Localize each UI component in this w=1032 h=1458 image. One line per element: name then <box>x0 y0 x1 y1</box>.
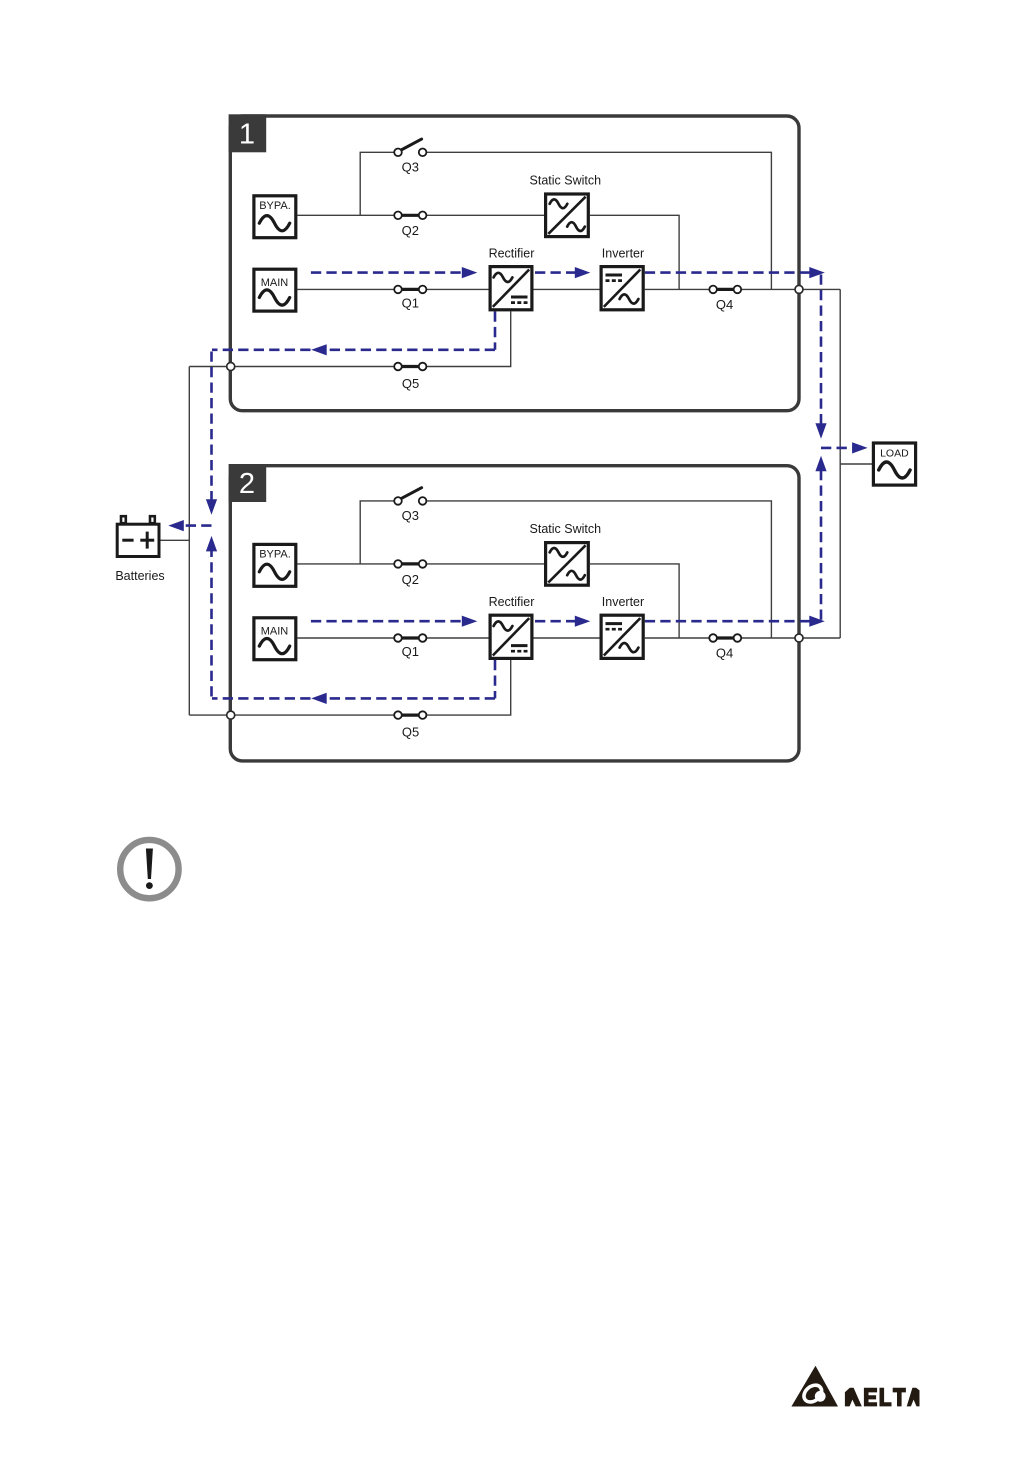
svg-text:Batteries: Batteries <box>115 569 164 583</box>
wire: Q5 battery line and riser to Rectifier bottom <box>189 311 510 366</box>
Delta logo triangle <box>791 1366 838 1407</box>
wire: Q5 battery line and riser to Rectifier bottom <box>189 660 510 715</box>
svg-text:Q3: Q3 <box>402 160 419 175</box>
svg-text:Q5: Q5 <box>402 376 419 391</box>
LOAD box <box>873 443 915 485</box>
unit 2 switch Q2 (closed) <box>394 560 426 568</box>
unit 1 number label <box>229 114 267 152</box>
svg-text:Q3: Q3 <box>402 508 419 523</box>
unit 2 label Static Switch <box>530 522 602 536</box>
unit 2 switch Q4 (closed) <box>709 634 741 642</box>
unit 1 switch Q3 (open) <box>394 139 426 156</box>
flow: unit 2 return up to battery junction (dashed arrow) <box>206 536 217 697</box>
wire: Static Switch output down to output line <box>590 215 679 289</box>
unit 2 flow: Rectifier to Inverter (dashed arrow) <box>535 616 590 627</box>
wire: battery tap <box>161 539 190 541</box>
unit 2 BYPA source box <box>254 544 296 586</box>
Delta logo wordmark DELTA <box>845 1388 920 1407</box>
svg-text:Q4: Q4 <box>716 297 733 312</box>
unit 1 switch Q5 (closed) <box>394 363 426 371</box>
unit 2 label Q4 <box>716 645 733 660</box>
unit 2 label Q3 <box>402 508 419 523</box>
unit 1 label Q2 <box>402 223 419 238</box>
svg-text:BYPA.: BYPA. <box>259 200 291 212</box>
svg-text:Q5: Q5 <box>402 725 419 740</box>
flow: unit 1 return down to battery junction (dashed arrow) <box>206 352 217 515</box>
svg-text:1: 1 <box>239 118 255 150</box>
svg-text:MAIN: MAIN <box>261 277 289 289</box>
unit 2 Static Switch block <box>546 543 589 586</box>
svg-text:Q4: Q4 <box>716 645 733 660</box>
unit 1 Rectifier block <box>490 267 532 310</box>
svg-text:2: 2 <box>239 468 255 500</box>
unit 2 label Q5 <box>402 725 419 740</box>
unit 1 label Static Switch <box>530 173 602 187</box>
unit 1 switch Q4 (closed) <box>709 286 741 294</box>
flow: unit 1 output down to load junction (dashed arrow) <box>815 275 826 439</box>
left battery bus vertical wire <box>188 367 190 716</box>
unit 1 node: output at right border <box>795 285 803 293</box>
unit 1 switch Q2 (closed) <box>394 212 426 220</box>
unit 1 flow: Rectifier to Inverter (dashed arrow) <box>535 267 590 278</box>
unit 2 label Rectifier <box>489 595 535 609</box>
unit 2 node: Q5 line at left border <box>227 711 235 719</box>
unit 1 label Q1 <box>402 295 419 310</box>
unit 1 Inverter block <box>601 267 643 310</box>
unit 2 number label <box>229 464 267 502</box>
unit 1 flow: Inverter to output bus (dashed arrow) <box>645 267 825 278</box>
svg-text:Q1: Q1 <box>402 644 419 659</box>
svg-text:Rectifier: Rectifier <box>489 246 535 260</box>
unit 2 flow: Inverter to output bus (dashed arrow) <box>645 616 825 627</box>
unit 2 label Q1 <box>402 644 419 659</box>
unit 1 label Q3 <box>402 160 419 175</box>
unit 1 switch Q1 (closed) <box>394 286 426 294</box>
unit 2 flow: Rectifier return to battery line (dashed arrow) <box>212 660 495 704</box>
wire: BYPA output to Q2 to Static Switch <box>297 214 545 216</box>
wire: Q3 output down to output line <box>426 152 771 289</box>
wire: MAIN output through Q1 to Rectifier <box>297 637 490 639</box>
svg-text:LOAD: LOAD <box>880 447 909 459</box>
unit 1 label Q5 <box>402 376 419 391</box>
wire: output bus to LOAD <box>840 463 873 465</box>
svg-text:Inverter: Inverter <box>602 246 644 260</box>
unit 2 label Q2 <box>402 572 419 587</box>
wire: riser BYPA line to Q3 line <box>360 501 394 564</box>
Batteries symbol <box>117 516 159 556</box>
unit 1 BYPA source box <box>254 196 296 238</box>
right output bus vertical wire <box>839 289 841 638</box>
flow: junction to Batteries (dashed arrow) <box>168 520 211 531</box>
svg-text:Q2: Q2 <box>402 223 419 238</box>
wire: Rectifier to Inverter <box>534 637 602 639</box>
wire: Inverter through Q4 to output bus <box>645 637 840 639</box>
unit 1 label Q4 <box>716 297 733 312</box>
unit 2 switch Q5 (closed) <box>394 711 426 719</box>
svg-text:Static Switch: Static Switch <box>530 522 602 536</box>
warning icon (exclamation circle) <box>120 840 178 898</box>
unit 1 MAIN source box <box>254 269 296 311</box>
wire: Rectifier to Inverter <box>534 288 602 290</box>
unit 1 Static Switch block <box>546 194 589 237</box>
unit 2 switch Q1 (closed) <box>394 634 426 642</box>
wire: BYPA output to Q2 to Static Switch <box>297 563 545 565</box>
unit 2 flow: MAIN to Rectifier (dashed arrow) <box>311 616 477 627</box>
flow: unit 2 output up to load junction (dashed arrow) <box>815 456 826 620</box>
wire: riser BYPA line to Q3 line <box>360 152 394 215</box>
svg-text:Q2: Q2 <box>402 572 419 587</box>
unit 1 label Inverter <box>602 246 644 260</box>
wire: Static Switch output down to output line <box>590 564 679 638</box>
flow: junction to LOAD (dashed arrow) <box>821 442 868 453</box>
unit 2 Inverter block <box>601 615 643 658</box>
unit 1 node: Q5 line at left border <box>227 363 235 371</box>
wire: Q3 output down to output line <box>426 501 771 638</box>
unit 1 label Rectifier <box>489 246 535 260</box>
unit 2 label Inverter <box>602 595 644 609</box>
unit 2 node: output at right border <box>795 634 803 642</box>
svg-text:Rectifier: Rectifier <box>489 595 535 609</box>
svg-text:MAIN: MAIN <box>261 626 289 638</box>
svg-text:Static Switch: Static Switch <box>530 173 602 187</box>
label Batteries <box>115 569 164 583</box>
unit 1 flow: Rectifier return to battery line (dashed arrow) <box>212 311 495 355</box>
wire: Inverter through Q4 to output bus <box>645 288 840 290</box>
svg-text:Q1: Q1 <box>402 295 419 310</box>
unit 1 flow: MAIN to Rectifier (dashed arrow) <box>311 267 477 278</box>
unit 2 MAIN source box <box>254 618 296 660</box>
unit 2 Rectifier block <box>490 615 532 658</box>
svg-text:Inverter: Inverter <box>602 595 644 609</box>
unit 2 enclosure <box>230 466 799 761</box>
unit 1 enclosure <box>230 116 799 411</box>
svg-text:BYPA.: BYPA. <box>259 548 291 560</box>
wire: MAIN output through Q1 to Rectifier <box>297 288 490 290</box>
unit 2 switch Q3 (open) <box>394 488 426 505</box>
